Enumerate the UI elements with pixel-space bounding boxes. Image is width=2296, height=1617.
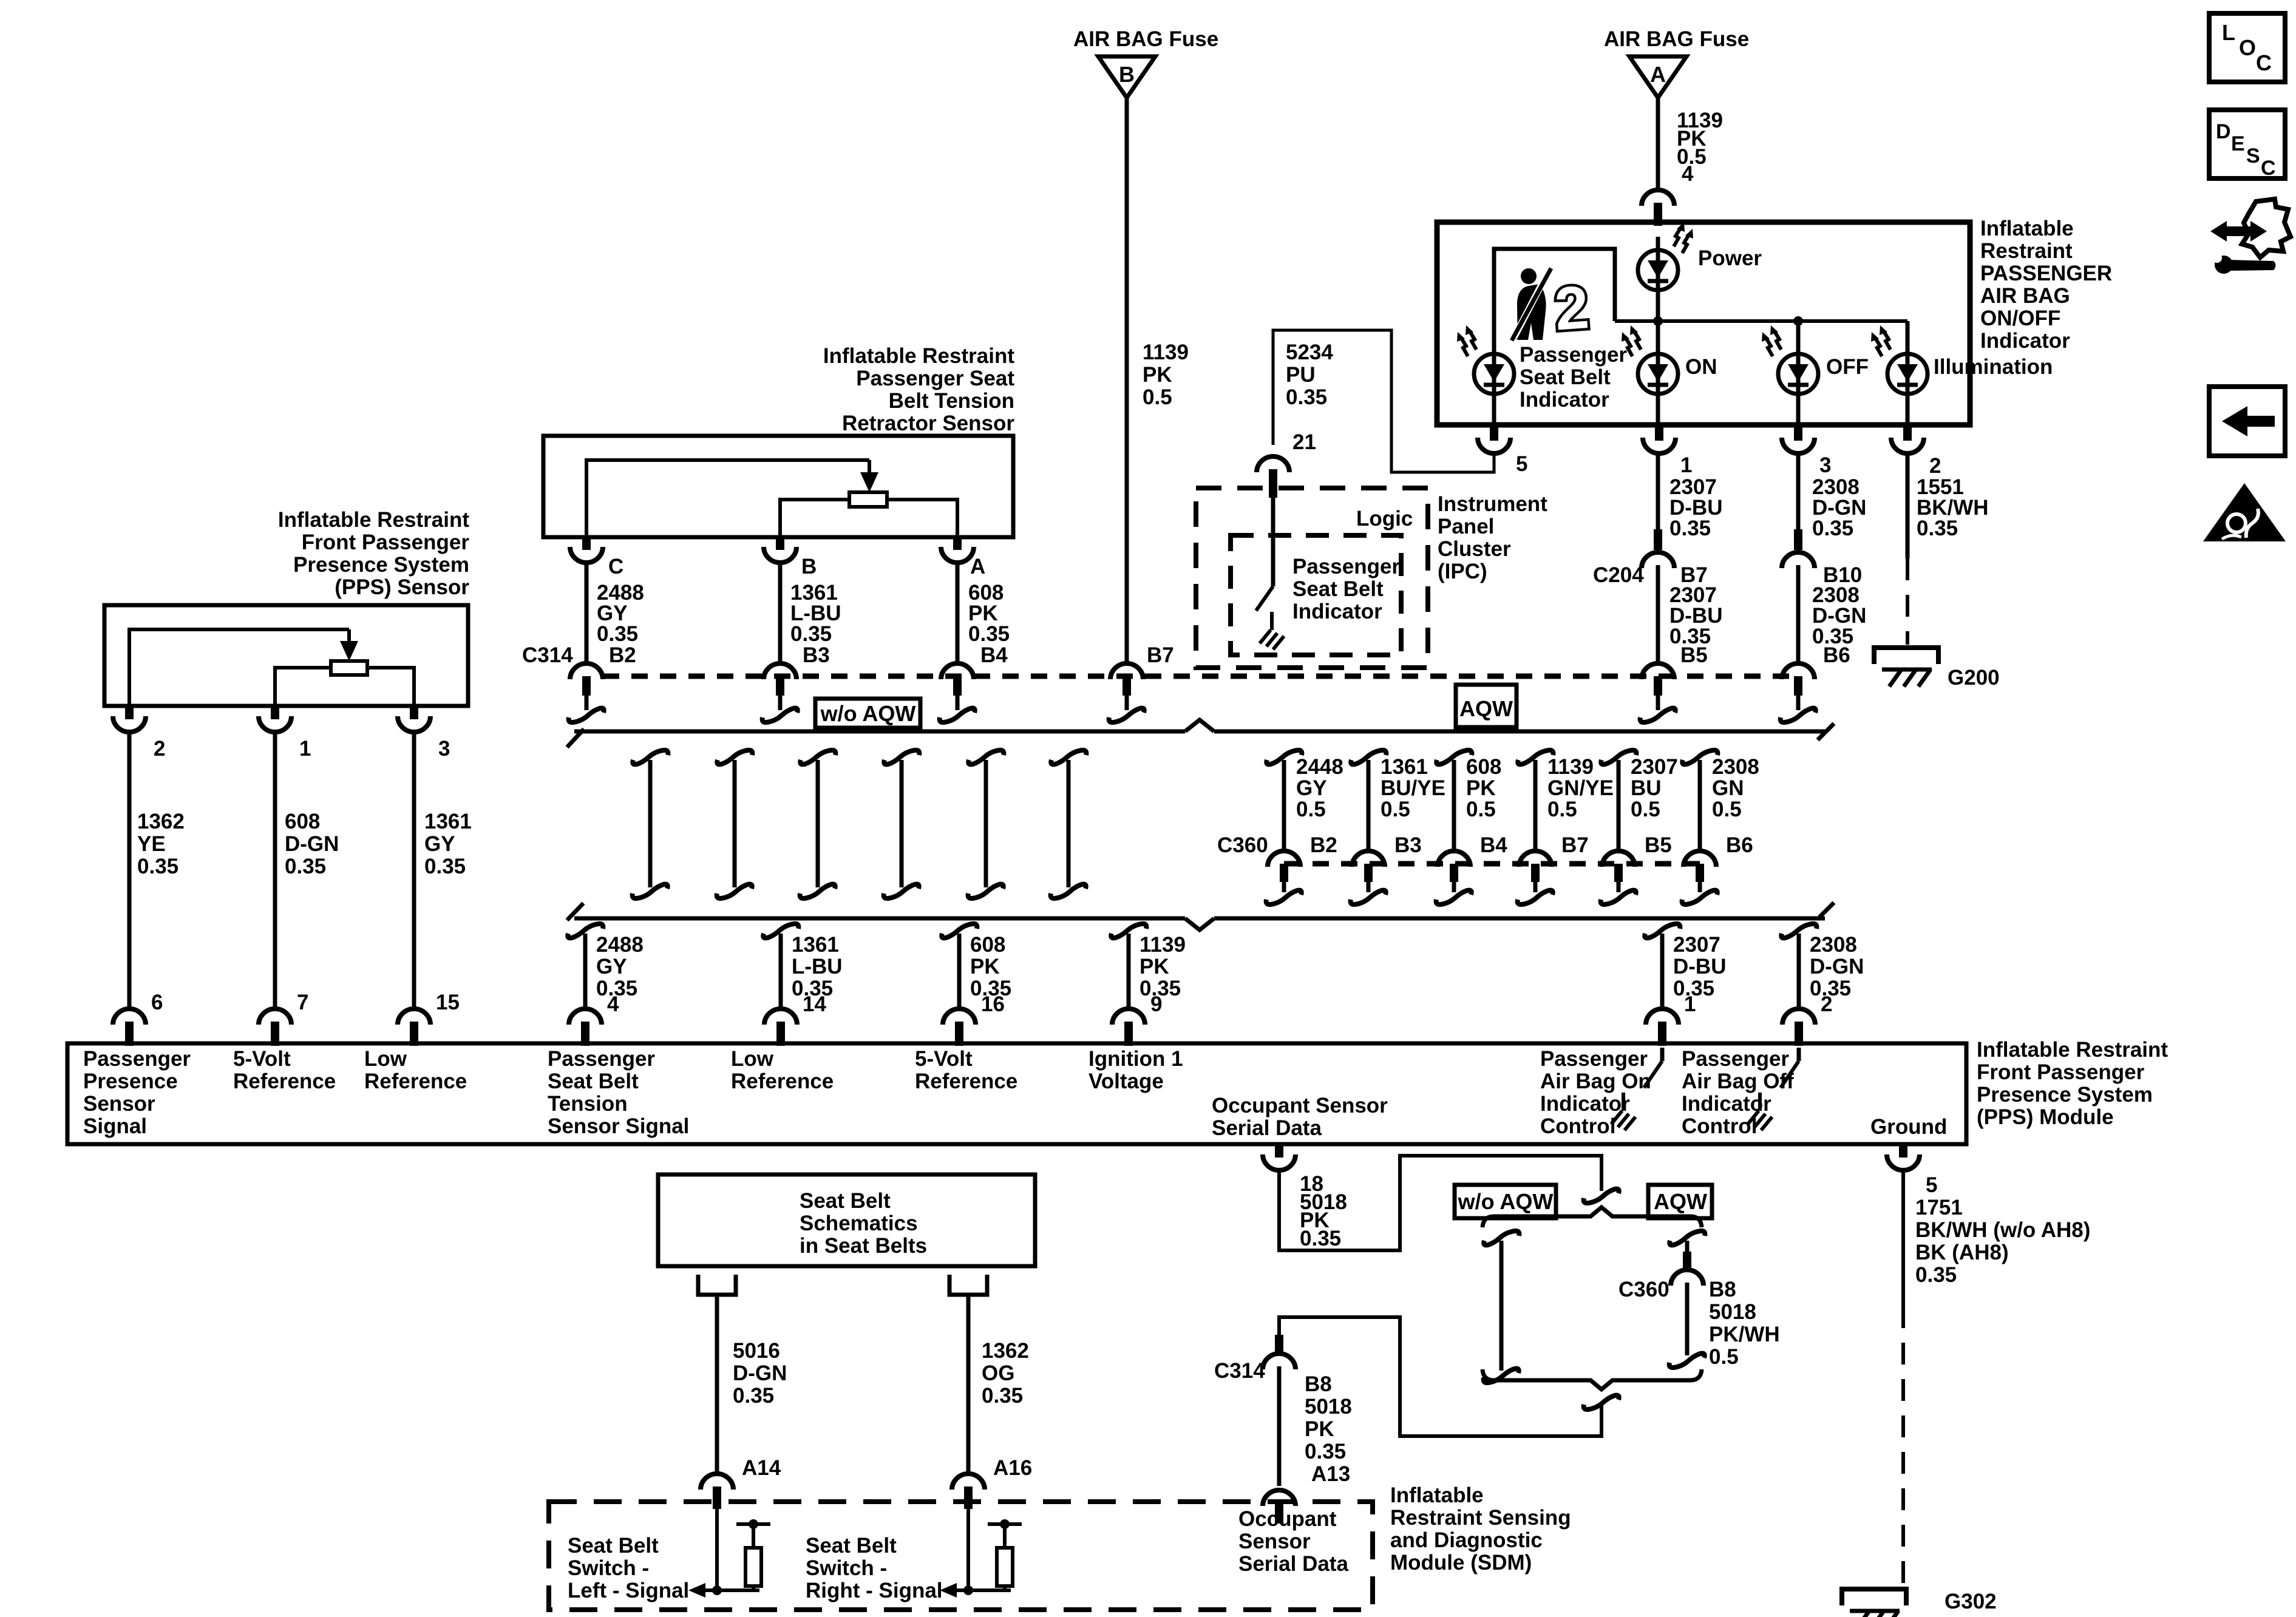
svg-text:0.35: 0.35 bbox=[1812, 517, 1853, 540]
svg-text:D-GN: D-GN bbox=[285, 832, 339, 856]
svg-text:2: 2 bbox=[1929, 454, 1941, 478]
svg-text:Sensor: Sensor bbox=[83, 1092, 155, 1116]
svg-text:B8: B8 bbox=[1709, 1278, 1736, 1301]
svg-text:2308: 2308 bbox=[1810, 933, 1857, 957]
svg-text:L-BU: L-BU bbox=[792, 955, 843, 978]
svg-text:E: E bbox=[2231, 132, 2245, 155]
svg-text:9: 9 bbox=[1150, 992, 1162, 1016]
svg-text:Air Bag Off: Air Bag Off bbox=[1682, 1070, 1794, 1093]
svg-text:B3: B3 bbox=[1394, 833, 1422, 857]
svg-text:B6: B6 bbox=[1823, 643, 1850, 667]
svg-text:2308: 2308 bbox=[1712, 755, 1759, 779]
svg-text:G302: G302 bbox=[1944, 1590, 1997, 1613]
svg-text:5: 5 bbox=[1516, 452, 1527, 476]
svg-text:0.5: 0.5 bbox=[1381, 798, 1410, 821]
svg-text:0.5: 0.5 bbox=[1466, 798, 1496, 821]
svg-text:Low: Low bbox=[364, 1047, 407, 1071]
svg-text:0.5: 0.5 bbox=[1547, 798, 1577, 821]
svg-text:O: O bbox=[2239, 35, 2256, 60]
svg-text:Switch -: Switch - bbox=[806, 1556, 887, 1580]
svg-text:PU: PU bbox=[1286, 363, 1316, 387]
svg-text:BU: BU bbox=[1631, 776, 1662, 800]
svg-text:A: A bbox=[1650, 62, 1666, 87]
svg-text:Seat Belt: Seat Belt bbox=[806, 1534, 897, 1558]
svg-text:Indicator: Indicator bbox=[1292, 600, 1382, 623]
svg-text:B6: B6 bbox=[1726, 833, 1753, 857]
svg-text:D-GN: D-GN bbox=[733, 1361, 787, 1385]
svg-text:5018: 5018 bbox=[1709, 1300, 1756, 1324]
svg-text:Right - Signal: Right - Signal bbox=[806, 1579, 943, 1602]
svg-text:Sensor Signal: Sensor Signal bbox=[548, 1114, 689, 1138]
svg-text:Passenger: Passenger bbox=[1540, 1047, 1648, 1071]
svg-text:608: 608 bbox=[1466, 755, 1501, 779]
svg-text:GY: GY bbox=[1296, 776, 1327, 800]
svg-text:YE: YE bbox=[137, 832, 166, 856]
svg-text:Front Passenger: Front Passenger bbox=[302, 531, 470, 554]
svg-text:Passenger: Passenger bbox=[1520, 343, 1627, 367]
svg-text:Inflatable Restraint: Inflatable Restraint bbox=[278, 508, 469, 532]
svg-text:B5: B5 bbox=[1680, 643, 1708, 667]
svg-text:(IPC): (IPC) bbox=[1438, 560, 1487, 583]
svg-text:B3: B3 bbox=[803, 643, 830, 667]
svg-text:0.35: 0.35 bbox=[1305, 1440, 1346, 1463]
svg-text:B4: B4 bbox=[1480, 833, 1507, 857]
svg-text:1361: 1361 bbox=[424, 810, 472, 833]
svg-text:BK/WH (w/o AH8): BK/WH (w/o AH8) bbox=[1915, 1218, 2090, 1242]
svg-text:2488: 2488 bbox=[596, 933, 644, 957]
svg-text:B: B bbox=[801, 555, 817, 578]
svg-text:Reference: Reference bbox=[915, 1070, 1017, 1093]
svg-text:608: 608 bbox=[285, 810, 320, 833]
svg-text:AIR BAG: AIR BAG bbox=[1980, 284, 2070, 308]
svg-text:(PPS) Sensor: (PPS) Sensor bbox=[335, 575, 469, 599]
svg-text:0.5: 0.5 bbox=[1712, 798, 1742, 821]
svg-text:A13: A13 bbox=[1311, 1462, 1350, 1486]
svg-text:C314: C314 bbox=[1214, 1359, 1265, 1383]
svg-text:1: 1 bbox=[1680, 453, 1692, 477]
svg-text:AQW: AQW bbox=[1459, 696, 1513, 721]
svg-text:0.5: 0.5 bbox=[1709, 1345, 1739, 1369]
svg-text:1: 1 bbox=[299, 737, 311, 761]
svg-text:Voltage: Voltage bbox=[1089, 1070, 1164, 1093]
svg-text:and Diagnostic: and Diagnostic bbox=[1390, 1528, 1543, 1552]
svg-text:Presence System: Presence System bbox=[1977, 1083, 2153, 1107]
svg-text:15: 15 bbox=[436, 991, 460, 1014]
svg-text:4: 4 bbox=[607, 992, 619, 1016]
svg-text:in Seat Belts: in Seat Belts bbox=[800, 1234, 927, 1258]
svg-text:4: 4 bbox=[1682, 162, 1694, 186]
svg-text:S: S bbox=[2246, 144, 2260, 168]
svg-text:Reference: Reference bbox=[364, 1070, 467, 1093]
svg-text:Front Passenger: Front Passenger bbox=[1977, 1060, 2145, 1084]
svg-text:L: L bbox=[2222, 20, 2235, 45]
svg-text:ON/OFF: ON/OFF bbox=[1980, 307, 2060, 330]
svg-text:Schematics: Schematics bbox=[800, 1212, 918, 1235]
svg-text:Module (SDM): Module (SDM) bbox=[1390, 1551, 1532, 1575]
svg-text:w/o AQW: w/o AQW bbox=[1458, 1189, 1554, 1214]
svg-text:C360: C360 bbox=[1217, 833, 1268, 857]
svg-text:C: C bbox=[608, 555, 623, 578]
svg-text:PK: PK bbox=[1466, 776, 1496, 800]
svg-text:Passenger: Passenger bbox=[548, 1047, 655, 1071]
svg-text:0.5: 0.5 bbox=[1631, 798, 1660, 821]
svg-text:Low: Low bbox=[731, 1047, 774, 1071]
svg-text:Inflatable Restraint: Inflatable Restraint bbox=[1977, 1038, 2168, 1062]
svg-text:Presence System: Presence System bbox=[293, 553, 469, 577]
svg-text:5-Volt: 5-Volt bbox=[233, 1047, 291, 1071]
svg-text:PK: PK bbox=[1140, 955, 1169, 978]
svg-text:Reference: Reference bbox=[233, 1070, 336, 1093]
svg-text:5016: 5016 bbox=[733, 1339, 780, 1363]
svg-text:0.35: 0.35 bbox=[1669, 517, 1711, 540]
svg-text:Tension: Tension bbox=[548, 1092, 628, 1116]
svg-text:0.35: 0.35 bbox=[790, 622, 832, 646]
svg-text:Control: Control bbox=[1540, 1114, 1615, 1138]
svg-text:PK: PK bbox=[970, 955, 1000, 978]
svg-text:B2: B2 bbox=[609, 643, 636, 667]
svg-text:Seat Belt: Seat Belt bbox=[1292, 577, 1384, 601]
svg-text:Passenger Seat: Passenger Seat bbox=[856, 367, 1014, 390]
svg-text:Cluster: Cluster bbox=[1438, 537, 1511, 561]
svg-text:Seat Belt: Seat Belt bbox=[1520, 365, 1611, 389]
svg-text:AIR BAG Fuse: AIR BAG Fuse bbox=[1073, 27, 1218, 51]
svg-text:Inflatable Restraint: Inflatable Restraint bbox=[823, 344, 1014, 368]
svg-text:Occupant: Occupant bbox=[1238, 1507, 1337, 1531]
svg-text:C: C bbox=[2256, 50, 2272, 75]
svg-text:1362: 1362 bbox=[982, 1339, 1029, 1363]
svg-text:Inflatable: Inflatable bbox=[1980, 217, 2074, 240]
svg-text:6: 6 bbox=[151, 991, 163, 1014]
svg-text:Logic: Logic bbox=[1356, 507, 1413, 531]
svg-text:A: A bbox=[970, 555, 985, 578]
svg-text:GN: GN bbox=[1712, 776, 1744, 800]
svg-text:0.35: 0.35 bbox=[1286, 385, 1327, 409]
svg-text:BU/YE: BU/YE bbox=[1381, 776, 1445, 800]
svg-text:Instrument: Instrument bbox=[1438, 492, 1547, 516]
svg-text:0.35: 0.35 bbox=[285, 855, 326, 878]
svg-text:GY: GY bbox=[424, 832, 455, 856]
svg-text:C314: C314 bbox=[522, 643, 573, 667]
svg-text:G200: G200 bbox=[1948, 666, 2000, 690]
svg-text:0.35: 0.35 bbox=[1915, 1263, 1957, 1287]
svg-text:D-GN: D-GN bbox=[1810, 955, 1864, 978]
svg-text:2307: 2307 bbox=[1631, 755, 1678, 779]
svg-text:Power: Power bbox=[1698, 246, 1762, 270]
svg-text:C204: C204 bbox=[1593, 563, 1644, 587]
svg-text:0.35: 0.35 bbox=[982, 1384, 1023, 1408]
svg-text:Passenger: Passenger bbox=[1682, 1047, 1789, 1071]
svg-text:Passenger: Passenger bbox=[83, 1047, 191, 1071]
svg-text:Control: Control bbox=[1682, 1114, 1757, 1138]
svg-text:Presence: Presence bbox=[83, 1070, 178, 1093]
svg-text:Indicator: Indicator bbox=[1980, 329, 2070, 353]
svg-text:B2: B2 bbox=[1310, 833, 1337, 857]
svg-text:Left - Signal: Left - Signal bbox=[568, 1579, 689, 1602]
svg-text:AQW: AQW bbox=[1654, 1189, 1707, 1214]
svg-text:B7: B7 bbox=[1561, 833, 1589, 857]
svg-text:Seat Belt: Seat Belt bbox=[568, 1534, 659, 1558]
svg-text:Passenger: Passenger bbox=[1292, 555, 1400, 578]
svg-text:Signal: Signal bbox=[83, 1114, 147, 1138]
svg-text:Air Bag On: Air Bag On bbox=[1540, 1070, 1651, 1093]
svg-text:5-Volt: 5-Volt bbox=[915, 1047, 973, 1071]
svg-text:OG: OG bbox=[982, 1361, 1014, 1385]
svg-text:3: 3 bbox=[438, 737, 450, 761]
svg-text:Illumination: Illumination bbox=[1934, 355, 2053, 379]
svg-text:1751: 1751 bbox=[1915, 1196, 1963, 1219]
svg-text:608: 608 bbox=[970, 933, 1005, 957]
svg-text:B5: B5 bbox=[1645, 833, 1672, 857]
svg-text:Indicator: Indicator bbox=[1540, 1092, 1630, 1116]
svg-text:Restraint Sensing: Restraint Sensing bbox=[1390, 1506, 1571, 1530]
svg-text:0.5: 0.5 bbox=[1296, 798, 1326, 821]
svg-text:Serial Data: Serial Data bbox=[1238, 1552, 1348, 1576]
svg-text:5: 5 bbox=[1926, 1173, 1937, 1197]
svg-text:w/o AQW: w/o AQW bbox=[820, 701, 916, 726]
svg-text:2307: 2307 bbox=[1673, 933, 1720, 957]
svg-text:1361: 1361 bbox=[1381, 755, 1428, 779]
svg-text:2448: 2448 bbox=[1296, 755, 1343, 779]
svg-text:Retractor Sensor: Retractor Sensor bbox=[842, 412, 1014, 435]
svg-text:0.35: 0.35 bbox=[137, 855, 178, 878]
svg-text:Seat Belt: Seat Belt bbox=[548, 1070, 639, 1093]
svg-text:Serial Data: Serial Data bbox=[1212, 1116, 1322, 1140]
svg-text:A14: A14 bbox=[742, 1456, 781, 1480]
svg-text:2: 2 bbox=[154, 737, 165, 761]
svg-text:B: B bbox=[1119, 62, 1135, 87]
svg-text:B4: B4 bbox=[980, 643, 1008, 667]
svg-text:1: 1 bbox=[1684, 992, 1696, 1016]
svg-text:D-BU: D-BU bbox=[1673, 955, 1726, 978]
svg-text:PK: PK bbox=[1305, 1417, 1334, 1441]
svg-text:16: 16 bbox=[981, 992, 1005, 1016]
svg-text:7: 7 bbox=[297, 991, 308, 1014]
svg-text:PK/WH: PK/WH bbox=[1709, 1323, 1780, 1346]
svg-text:Ground: Ground bbox=[1870, 1115, 1947, 1139]
svg-text:AIR BAG Fuse: AIR BAG Fuse bbox=[1604, 27, 1749, 51]
svg-text:14: 14 bbox=[803, 992, 826, 1016]
svg-text:C360: C360 bbox=[1618, 1278, 1669, 1301]
svg-text:ON: ON bbox=[1685, 355, 1717, 379]
svg-text:Restraint: Restraint bbox=[1980, 239, 2073, 263]
svg-text:0.5: 0.5 bbox=[1143, 385, 1172, 409]
svg-text:5234: 5234 bbox=[1286, 341, 1333, 364]
svg-text:0.35: 0.35 bbox=[733, 1384, 774, 1408]
svg-text:1139: 1139 bbox=[1547, 755, 1594, 779]
svg-text:D: D bbox=[2216, 120, 2231, 143]
svg-text:1362: 1362 bbox=[137, 810, 185, 833]
svg-text:0.35: 0.35 bbox=[968, 622, 1010, 646]
svg-text:0.35: 0.35 bbox=[424, 855, 466, 878]
svg-text:(PPS) Module: (PPS) Module bbox=[1977, 1105, 2114, 1129]
svg-text:Panel: Panel bbox=[1438, 515, 1494, 538]
svg-text:Reference: Reference bbox=[731, 1070, 834, 1093]
svg-text:2: 2 bbox=[1821, 992, 1832, 1016]
svg-text:Belt Tension: Belt Tension bbox=[889, 389, 1014, 413]
svg-text:0.35: 0.35 bbox=[597, 622, 638, 646]
svg-text:PASSENGER: PASSENGER bbox=[1980, 262, 2112, 285]
svg-text:GY: GY bbox=[596, 955, 627, 978]
svg-text:0.35: 0.35 bbox=[1917, 517, 1958, 540]
svg-text:Inflatable: Inflatable bbox=[1390, 1483, 1484, 1507]
svg-text:5018: 5018 bbox=[1305, 1395, 1352, 1419]
svg-text:GN/YE: GN/YE bbox=[1547, 776, 1614, 800]
svg-text:C: C bbox=[2261, 157, 2276, 180]
svg-text:Switch -: Switch - bbox=[568, 1556, 649, 1580]
svg-text:Sensor: Sensor bbox=[1238, 1530, 1311, 1553]
svg-text:Indicator: Indicator bbox=[1520, 388, 1609, 412]
svg-text:B7: B7 bbox=[1147, 643, 1174, 667]
svg-text:Seat Belt: Seat Belt bbox=[800, 1189, 891, 1213]
svg-text:OFF: OFF bbox=[1826, 355, 1869, 379]
svg-text:Ignition 1: Ignition 1 bbox=[1089, 1047, 1183, 1071]
svg-text:1139: 1139 bbox=[1143, 341, 1189, 364]
svg-text:0.35: 0.35 bbox=[1300, 1227, 1341, 1250]
svg-text:1361: 1361 bbox=[792, 933, 839, 957]
svg-text:Occupant Sensor: Occupant Sensor bbox=[1212, 1094, 1388, 1117]
svg-text:BK (AH8): BK (AH8) bbox=[1915, 1241, 2009, 1264]
svg-text:21: 21 bbox=[1292, 430, 1316, 454]
svg-text:PK: PK bbox=[1143, 363, 1172, 387]
svg-text:B8: B8 bbox=[1305, 1372, 1332, 1396]
svg-text:2: 2 bbox=[1552, 273, 1591, 344]
svg-text:1139: 1139 bbox=[1140, 933, 1186, 957]
svg-text:3: 3 bbox=[1819, 453, 1831, 477]
svg-text:A16: A16 bbox=[993, 1456, 1032, 1480]
